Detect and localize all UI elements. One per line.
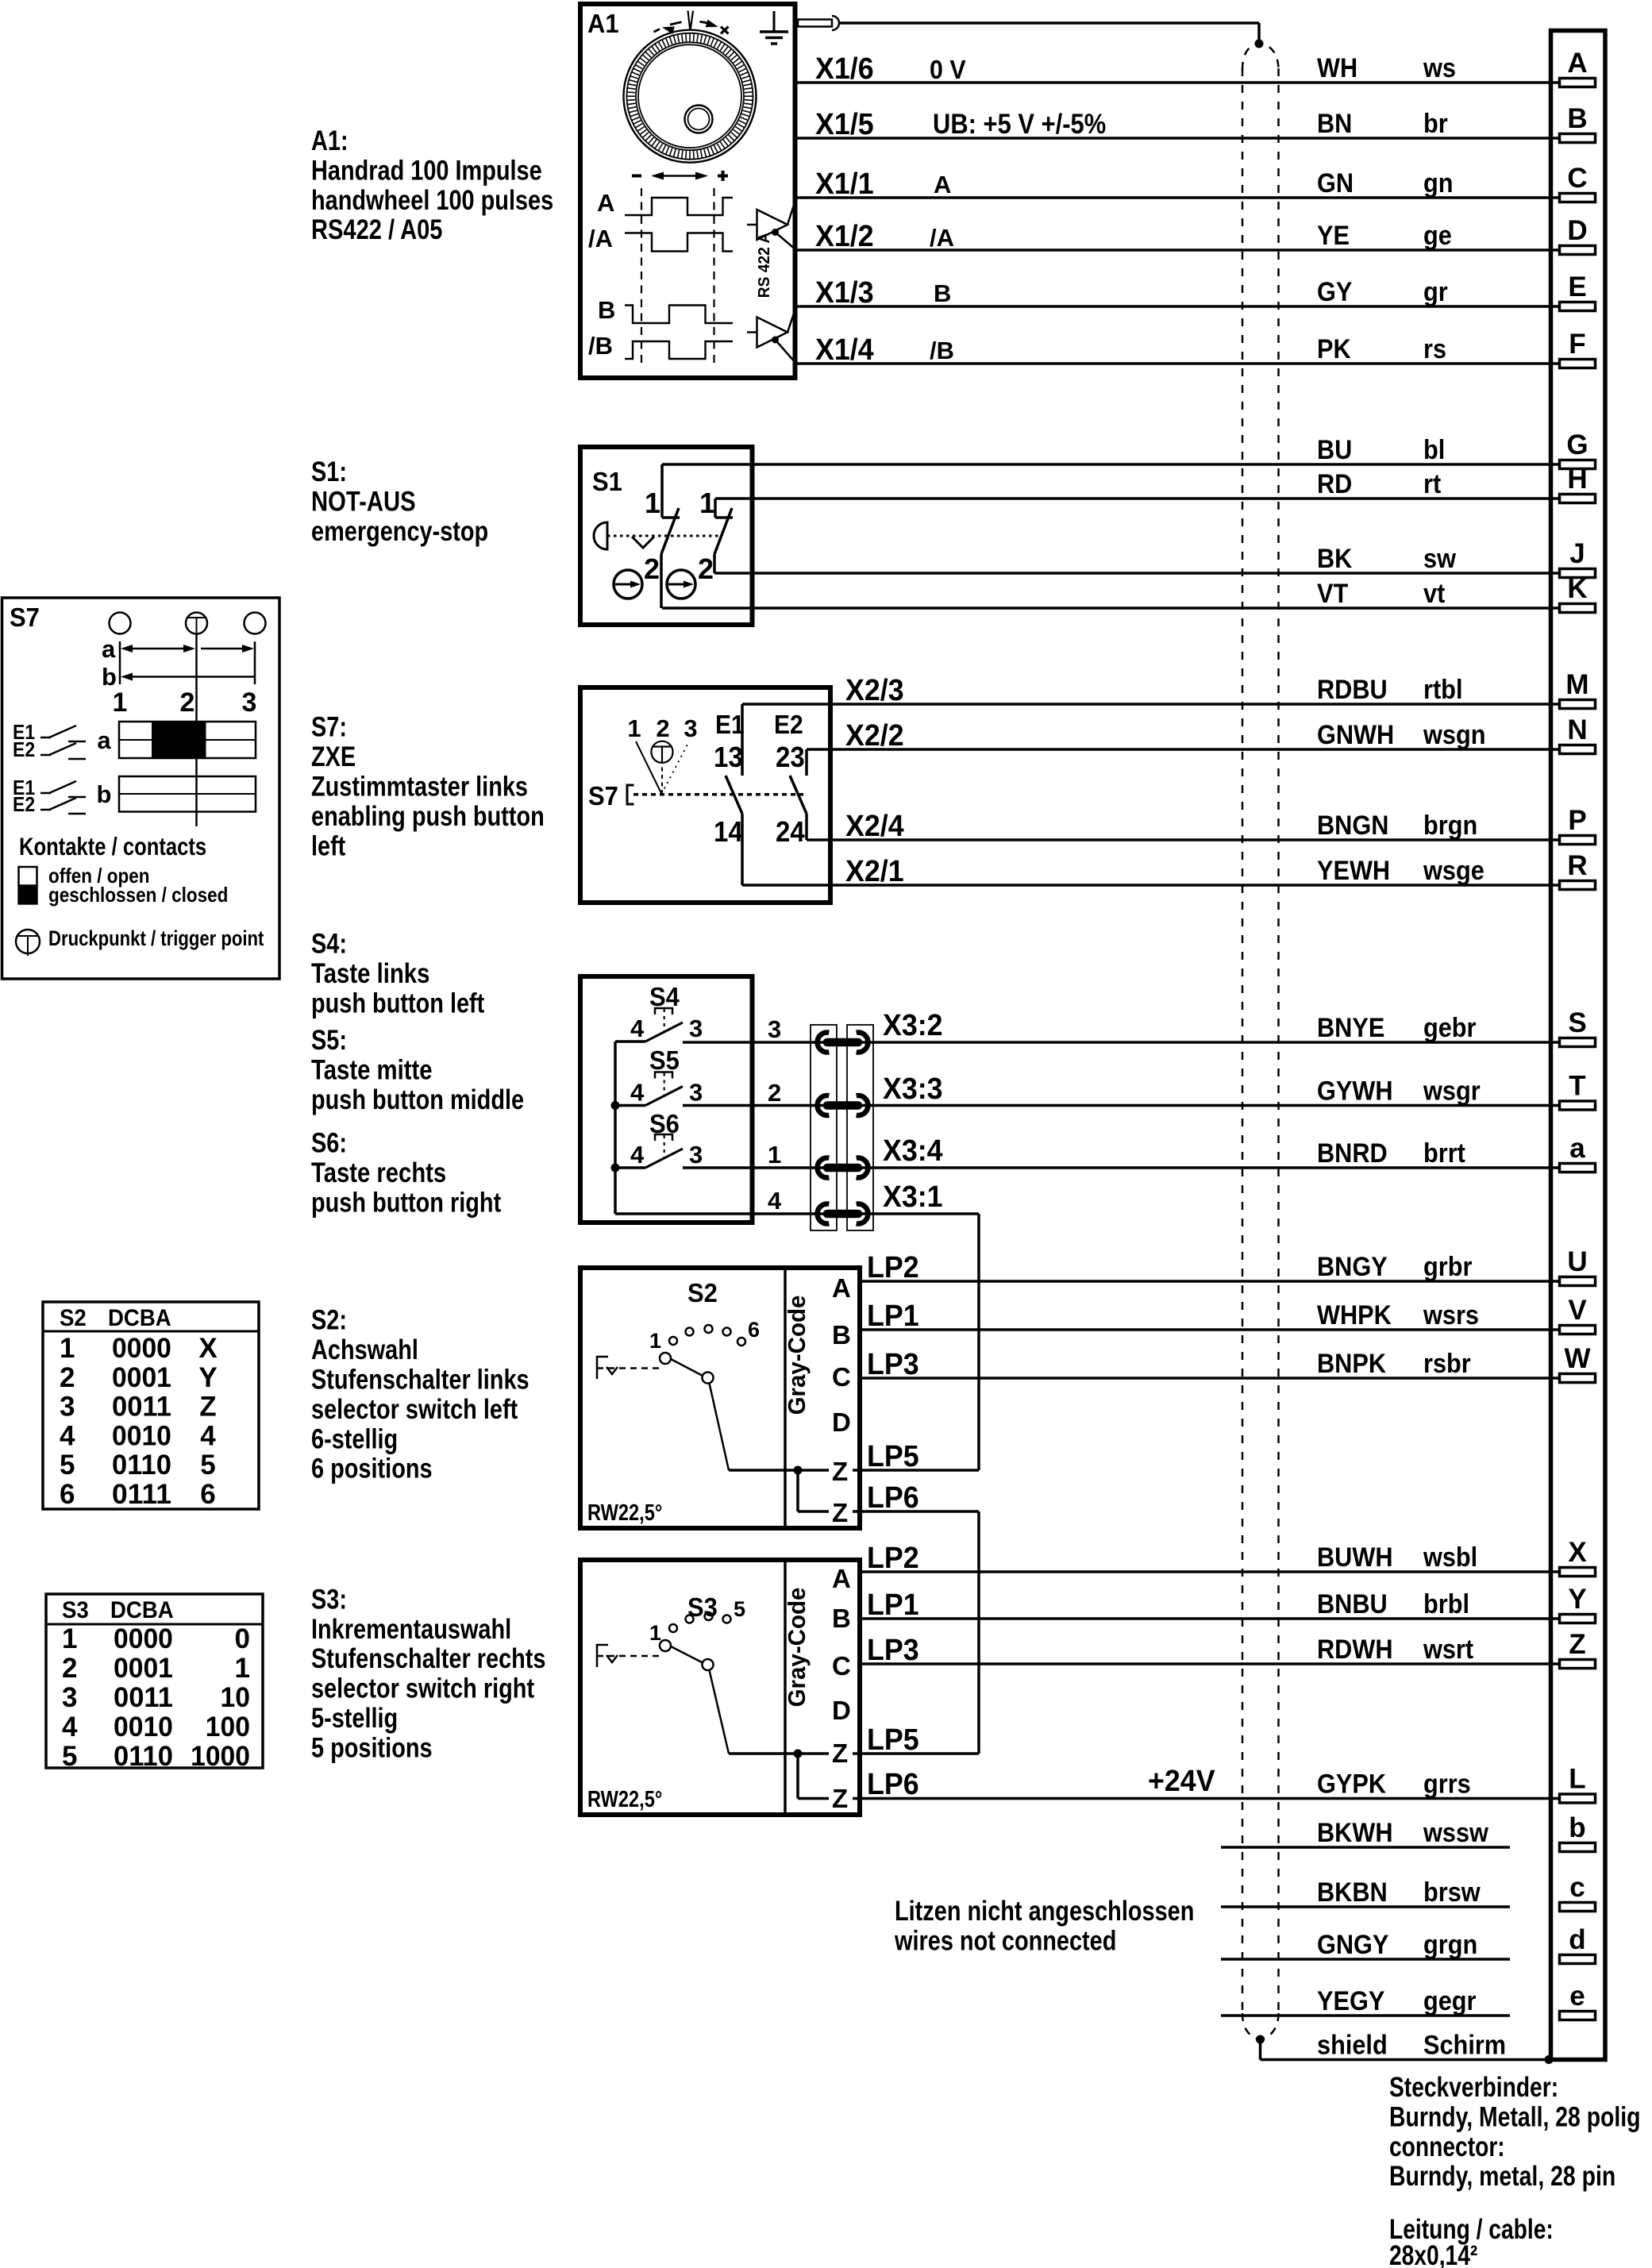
svg-text:a: a: [97, 726, 111, 754]
label X2/4: [845, 810, 904, 843]
svg-text:WH: WH: [1317, 53, 1357, 83]
svg-text:d: d: [1569, 1924, 1585, 1955]
svg-text:E: E: [1568, 271, 1586, 302]
svg-text:A1:: A1:: [311, 125, 348, 156]
label UB voltage: [933, 109, 1106, 140]
S3 mech bracket: [597, 1645, 618, 1667]
label 6 position S2: [748, 1318, 760, 1342]
junction S2 Z: [794, 1466, 803, 1475]
svg-text:wsgr: wsgr: [1423, 1076, 1481, 1107]
svg-text:0000: 0000: [112, 1333, 171, 1364]
wire X2/3 to M: [742, 703, 1559, 706]
svg-text:BNGN: BNGN: [1317, 811, 1388, 841]
svg-text:LP1: LP1: [867, 1300, 919, 1333]
svg-text:E1: E1: [715, 710, 745, 739]
label wire GYWH wsgr: [1317, 1076, 1481, 1107]
svg-text:6: 6: [748, 1318, 760, 1342]
svg-text:5: 5: [200, 1450, 215, 1481]
svg-text:3: 3: [242, 687, 257, 718]
svg-text:LP2: LP2: [867, 1542, 919, 1575]
svg-text:1: 1: [699, 487, 715, 519]
svg-text:wsge: wsge: [1423, 856, 1484, 886]
svg-text:5 positions: 5 positions: [311, 1732, 433, 1763]
junction S6 bus: [611, 1164, 620, 1173]
label X1/6: [815, 52, 874, 86]
label X3:1: [883, 1180, 943, 1214]
svg-text:wssw: wssw: [1423, 1818, 1488, 1848]
junction shield bottom: [1256, 2035, 1265, 2044]
push button S5: [630, 1045, 703, 1107]
svg-text:br: br: [1423, 109, 1448, 139]
svg-text:4: 4: [630, 1079, 645, 1107]
svg-text:BKBN: BKBN: [1317, 1877, 1388, 1908]
svg-text:brrt: brrt: [1423, 1138, 1465, 1169]
label Druckpunkt trigger point: [48, 926, 264, 950]
svg-text:D: D: [832, 1407, 851, 1437]
S2 mech bracket: [597, 1357, 618, 1379]
label A1: [587, 9, 619, 38]
label 13: [714, 741, 743, 773]
svg-text:24: 24: [776, 815, 805, 848]
description S2: [311, 1305, 529, 1484]
svg-text:3: 3: [689, 1079, 703, 1107]
switch S7 box: [580, 687, 830, 903]
svg-text:D: D: [1567, 215, 1587, 246]
svg-text:1: 1: [627, 714, 641, 742]
S1 turn-release symbol left: [614, 570, 642, 599]
svg-text:4: 4: [768, 1187, 782, 1215]
svg-text:6: 6: [60, 1479, 75, 1510]
wire X2/4 to P: [807, 838, 1559, 841]
S2 Z bridge: [729, 1470, 829, 1511]
junction ground-shield: [1255, 40, 1264, 48]
svg-text:S3: S3: [62, 1597, 89, 1623]
label 1 position S2: [649, 1329, 661, 1353]
label 2 of contact 2: [698, 553, 714, 585]
svg-text:R: R: [1567, 850, 1587, 881]
svg-text:geschlossen / closed: geschlossen / closed: [48, 883, 228, 907]
svg-text:wsgn: wsgn: [1423, 720, 1485, 750]
svg-text:4: 4: [62, 1712, 78, 1742]
wire BU to G: [662, 463, 1559, 466]
svg-text:0001: 0001: [112, 1362, 171, 1393]
S3 wiper pos1 contact: [660, 1640, 671, 1651]
S1 contact 2 upper path: [715, 499, 733, 518]
wire LP6 to L: [860, 1797, 1559, 1800]
svg-text:X: X: [198, 1333, 218, 1364]
svg-text:S4:: S4:: [311, 929, 347, 960]
S1 contact 1 upper path: [662, 464, 680, 518]
svg-text:2: 2: [62, 1653, 77, 1684]
svg-text:2: 2: [768, 1079, 781, 1107]
junction S3 Z: [794, 1750, 803, 1758]
phase dashed line left: [641, 188, 642, 368]
pin D of connector: [1560, 215, 1596, 255]
svg-text:push button right: push button right: [311, 1188, 501, 1219]
minus label: [632, 175, 641, 178]
svg-text:B: B: [934, 279, 951, 307]
svg-text:gn: gn: [1423, 168, 1454, 198]
svg-text:F: F: [1569, 329, 1585, 360]
label wire BNBU brbl: [1317, 1589, 1469, 1619]
svg-text:X1/3: X1/3: [815, 276, 874, 310]
svg-text:a: a: [102, 635, 116, 663]
label 5 position S3: [734, 1597, 745, 1621]
S3 gray-code divider: [784, 1560, 787, 1815]
label wire YEGY gegr: [1317, 1986, 1477, 2016]
wire YEGY not connected: [1221, 2014, 1510, 2017]
pin d of connector: [1560, 1924, 1596, 1964]
svg-text:U: U: [1567, 1246, 1587, 1277]
label X2/1: [845, 855, 904, 888]
S6 left wire seg: [615, 1166, 645, 1169]
label wire GNWH wsgn: [1317, 720, 1486, 750]
contact table a: [119, 722, 256, 758]
svg-text:6 positions: 6 positions: [311, 1454, 433, 1484]
label LP6 S2: [867, 1481, 919, 1515]
svg-text:b: b: [97, 780, 112, 808]
label S2 switch: [687, 1278, 718, 1307]
encoder A1 box: [580, 4, 795, 378]
label LP5 S2: [867, 1440, 919, 1473]
svg-text:3: 3: [684, 714, 697, 742]
label S7 legend: [10, 603, 40, 632]
svg-text:sw: sw: [1423, 544, 1456, 574]
S2 position dots: [669, 1325, 745, 1346]
label X2/3: [845, 674, 904, 707]
svg-text:grrs: grrs: [1423, 1769, 1471, 1800]
svg-text:wsrs: wsrs: [1423, 1300, 1479, 1330]
svg-text:5: 5: [62, 1741, 77, 1772]
svg-text:a: a: [1569, 1133, 1585, 1164]
handwheel index pointer: [688, 11, 694, 30]
S3 mech dashed link: [597, 1655, 660, 1658]
label terminal D S2: [832, 1407, 851, 1437]
contact table b: [119, 776, 256, 812]
svg-text:rsbr: rsbr: [1423, 1349, 1471, 1379]
label terminal A S2: [832, 1273, 851, 1303]
label X3:3: [883, 1072, 943, 1106]
svg-text:gegr: gegr: [1423, 1986, 1477, 2016]
svg-text:0000: 0000: [114, 1623, 173, 1654]
wire X1/3 B: [796, 305, 1559, 308]
label S7 switch: [588, 781, 618, 811]
legend closed box: [17, 885, 37, 905]
svg-text:J: J: [1569, 538, 1585, 569]
label X1/4: [815, 333, 874, 367]
twisted pair symbol X3:3: [818, 1095, 868, 1115]
svg-text:2: 2: [60, 1362, 75, 1393]
table S3 header: [62, 1597, 174, 1623]
svg-text:X1/1: X1/1: [815, 168, 874, 201]
S2 Z2 stub: [853, 1510, 861, 1513]
label wire YE ge: [1317, 221, 1452, 251]
S2 Z1 stub: [853, 1469, 861, 1472]
label /A waveform: [588, 225, 613, 252]
svg-text:left: left: [311, 830, 346, 861]
waveform /A trace: [625, 233, 733, 252]
svg-text:Achswahl: Achswahl: [311, 1334, 418, 1365]
svg-text:c: c: [1569, 1872, 1585, 1903]
svg-text:1: 1: [60, 1333, 75, 1364]
table S2 rows: [60, 1333, 218, 1510]
waveform A trace: [625, 198, 733, 215]
svg-text:rs: rs: [1423, 334, 1446, 364]
svg-text:0011: 0011: [114, 1682, 173, 1713]
svg-text:1: 1: [113, 687, 128, 718]
svg-text:Gray-Code: Gray-Code: [783, 1588, 811, 1708]
label wire RDBU rtbl: [1317, 675, 1463, 705]
svg-text:LP6: LP6: [867, 1481, 919, 1515]
plug contact at A1 top: [798, 16, 839, 30]
svg-text:A: A: [597, 189, 614, 217]
label S1: [592, 467, 622, 496]
S2 gray-code divider: [784, 1268, 787, 1528]
label X3:2: [883, 1009, 943, 1042]
pin K of connector: [1560, 573, 1596, 613]
button bus: [614, 1042, 617, 1214]
wire LP3 to Z: [860, 1662, 1559, 1665]
svg-text:B: B: [832, 1320, 851, 1350]
label B signal: [934, 279, 951, 307]
svg-text:B: B: [832, 1604, 851, 1633]
waveform B trace: [625, 306, 733, 324]
description S3: [311, 1584, 546, 1763]
svg-text:ZXE: ZXE: [311, 741, 356, 772]
svg-text:5: 5: [734, 1597, 745, 1621]
label X1/1: [815, 168, 874, 201]
svg-text:S1: S1: [592, 467, 622, 496]
svg-text:3: 3: [689, 1141, 703, 1169]
waveform /B trace: [625, 341, 733, 359]
svg-text:P: P: [1568, 805, 1586, 836]
svg-text:5-stellig: 5-stellig: [311, 1703, 398, 1734]
svg-text:6-stellig: 6-stellig: [311, 1423, 398, 1454]
svg-text:Handrad 100 Impulse: Handrad 100 Impulse: [311, 155, 542, 186]
label wire BNPK rsbr: [1317, 1349, 1471, 1379]
label /A signal: [930, 224, 954, 252]
label X1/3: [815, 276, 874, 310]
label wire VT vt: [1317, 579, 1445, 609]
note cable type: [1389, 2214, 1554, 2268]
S7 actuator bracket: [627, 785, 634, 804]
pin Y of connector: [1560, 1584, 1596, 1623]
label /B waveform: [588, 332, 613, 360]
position line 2: [195, 634, 198, 827]
label wire GYPK grrs: [1317, 1769, 1471, 1800]
label b row: [97, 780, 112, 808]
pin T of connector: [1560, 1071, 1596, 1111]
wire X1/6 0V: [796, 81, 1559, 84]
svg-text:emergency-stop: emergency-stop: [311, 516, 488, 547]
chassis ground symbol in A1: [760, 11, 788, 44]
svg-text:B: B: [598, 296, 615, 324]
S3 position dots: [669, 1612, 731, 1632]
svg-text:GYPK: GYPK: [1317, 1769, 1386, 1800]
svg-text:Gray-Code: Gray-Code: [783, 1296, 811, 1415]
svg-text:100: 100: [206, 1712, 250, 1742]
svg-text:grgn: grgn: [1423, 1930, 1477, 1960]
wire LP1 to V: [860, 1328, 1559, 1331]
label position 2: [180, 687, 195, 718]
pin N of connector: [1560, 714, 1596, 754]
svg-text:/A: /A: [588, 225, 613, 252]
label S3 switch: [687, 1592, 718, 1622]
svg-text:H: H: [1567, 464, 1587, 495]
svg-text:0001: 0001: [114, 1653, 173, 1684]
label wire BU bl: [1317, 435, 1445, 465]
svg-text:2: 2: [644, 553, 660, 585]
S7 E2 blade: [790, 776, 807, 814]
twisted pair symbol X3:2: [818, 1033, 868, 1053]
svg-text:brsw: brsw: [1423, 1877, 1481, 1908]
label wire BKWH wssw: [1317, 1818, 1488, 1848]
svg-text:enabling push button: enabling push button: [311, 801, 545, 832]
pin L of connector: [1560, 1764, 1596, 1804]
svg-text:23: 23: [776, 741, 805, 773]
svg-text:E2: E2: [13, 737, 35, 761]
svg-text:selector switch left: selector switch left: [311, 1394, 518, 1425]
pin E of connector: [1560, 271, 1596, 311]
wire LP1 to Y: [860, 1617, 1559, 1620]
S7 button circle 1: [110, 613, 131, 634]
label terminal D S3: [832, 1696, 851, 1725]
svg-text:Z: Z: [199, 1392, 216, 1423]
wire LP2 to U: [860, 1280, 1559, 1283]
dimension line b: [121, 673, 255, 681]
label 1 of contact 2: [699, 487, 715, 519]
pin e of connector: [1560, 1981, 1596, 2020]
pin a of connector: [1560, 1133, 1596, 1173]
S7 legend box: [2, 598, 280, 979]
legend open box: [19, 867, 37, 886]
shield drain wire: [1261, 2039, 1551, 2060]
svg-text:B: B: [1567, 103, 1587, 134]
svg-text:Steckverbinder:: Steckverbinder:: [1389, 2072, 1558, 2103]
label LP3 S2: [867, 1348, 919, 1381]
label E1 row a: [13, 720, 35, 744]
wire BKWH not connected: [1221, 1846, 1510, 1849]
cable shield dashed right: [1277, 68, 1280, 2015]
pin R of connector: [1560, 850, 1596, 890]
svg-text:X1/4: X1/4: [815, 333, 874, 367]
svg-text:L: L: [1569, 1764, 1585, 1795]
S3 wiper pivot: [703, 1659, 714, 1670]
connector X0 outline: [1551, 31, 1606, 2060]
svg-text:Z: Z: [832, 1498, 848, 1527]
S7 button circle 3: [245, 613, 266, 634]
label terminal Z1 S2: [832, 1457, 848, 1486]
svg-text:wires not connected: wires not connected: [894, 1925, 1116, 1956]
push buttons box: [580, 976, 753, 1223]
svg-text:S7: S7: [10, 603, 40, 632]
svg-text:NOT-AUS: NOT-AUS: [311, 486, 416, 517]
svg-text:3: 3: [60, 1392, 75, 1423]
S2 mech dashed link: [597, 1367, 660, 1369]
svg-text:S7: S7: [588, 781, 618, 811]
table S2 box: [43, 1302, 259, 1509]
description A1: [311, 125, 553, 245]
svg-text:LP6: LP6: [867, 1768, 919, 1801]
label wire BNRD brrt: [1317, 1138, 1465, 1169]
svg-text:WHPK: WHPK: [1317, 1300, 1392, 1330]
wire X2/2 to N: [807, 748, 1559, 751]
S7 selector lines: [636, 741, 689, 794]
label E2 row a: [13, 737, 35, 761]
wire X1/4 /B: [796, 362, 1559, 365]
label 24: [776, 815, 805, 848]
switch S1 box: [580, 447, 753, 625]
svg-text:Z: Z: [1569, 1629, 1585, 1660]
S7 E2 upper pin: [805, 749, 808, 776]
svg-text:Schirm: Schirm: [1423, 2031, 1506, 2061]
label wire BNGY grbr: [1317, 1252, 1472, 1282]
svg-text:S5: S5: [649, 1045, 680, 1075]
label Gray-Code S2: [783, 1296, 811, 1415]
label X2/2: [845, 719, 904, 753]
svg-text:LP3: LP3: [867, 1348, 919, 1381]
svg-text:Taste rechts: Taste rechts: [311, 1157, 446, 1188]
svg-text:LP1: LP1: [867, 1588, 919, 1622]
ferrite sleeve right: [847, 1025, 873, 1230]
svg-text:YEGY: YEGY: [1317, 1986, 1385, 2016]
S1 actuator dotted link: [607, 535, 718, 537]
svg-text:0010: 0010: [114, 1712, 173, 1742]
svg-text:Burndy, metal, 28 pin: Burndy, metal, 28 pin: [1389, 2161, 1615, 2192]
svg-text:Burndy, Metall, 28 polig: Burndy, Metall, 28 polig: [1389, 2101, 1641, 2132]
legend trigger symbol: [16, 930, 40, 956]
label LP5 S3: [867, 1723, 919, 1757]
label RS 422 A: [756, 233, 773, 298]
pin b of connector: [1560, 1812, 1596, 1852]
S7 E2 lower pin: [805, 814, 808, 840]
svg-text:S5:: S5:: [311, 1025, 347, 1056]
svg-text:b: b: [1569, 1812, 1585, 1843]
label geschlossen closed: [48, 883, 228, 907]
pin S of connector: [1560, 1007, 1596, 1047]
svg-text:Z: Z: [832, 1739, 848, 1768]
svg-text:1: 1: [649, 1329, 661, 1353]
S1 turn-release symbol right: [667, 570, 695, 599]
selector S3 box: [580, 1560, 860, 1815]
svg-text:Y: Y: [198, 1362, 217, 1393]
svg-text:LP2: LP2: [867, 1251, 919, 1284]
svg-text:0011: 0011: [112, 1392, 171, 1423]
svg-text:brbl: brbl: [1423, 1589, 1469, 1619]
S1 contact 2 lower pin: [713, 554, 716, 573]
junction shield connector: [1545, 2055, 1554, 2064]
svg-text:X2/3: X2/3: [845, 674, 904, 707]
svg-text:shield: shield: [1317, 2031, 1388, 2061]
dimension line a: [121, 645, 254, 653]
svg-text:1: 1: [62, 1623, 77, 1654]
svg-text:S1:: S1:: [311, 456, 347, 487]
svg-text:4: 4: [200, 1420, 216, 1451]
closed region a: [152, 722, 206, 758]
push button S4: [630, 982, 703, 1042]
label 2 outside: [768, 1079, 781, 1107]
svg-text:DCBA: DCBA: [108, 1305, 171, 1331]
S7 actuator dotted line: [633, 793, 803, 796]
pin X of connector: [1560, 1537, 1596, 1577]
S2 wiper arm: [671, 1359, 703, 1376]
note connector type: [1389, 2072, 1641, 2192]
svg-text:RDBU: RDBU: [1317, 675, 1388, 705]
svg-text:/B: /B: [930, 337, 954, 364]
wire X3:2 to S: [683, 1041, 1559, 1044]
label wire BNYE gebr: [1317, 1013, 1477, 1043]
svg-text:Z: Z: [832, 1457, 848, 1486]
